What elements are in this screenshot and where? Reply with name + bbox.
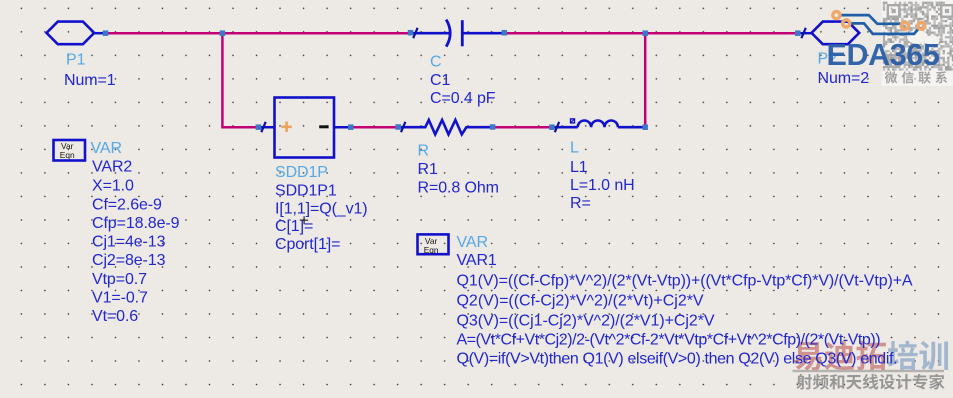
logo trace 2 <box>851 23 921 34</box>
P2 pin stub <box>798 32 812 35</box>
P1 pin stub <box>94 32 105 35</box>
SDD1P U1 box <box>258 98 367 254</box>
QR finder bottom-left <box>888 55 900 66</box>
svg-text:X=1.0: X=1.0 <box>92 177 134 194</box>
watermark yiditu bottom right <box>793 341 949 390</box>
svg-text:R=: R= <box>570 195 591 212</box>
junction at C1 pin 2 <box>502 30 508 36</box>
svg-text:Cfp=18.8e-9: Cfp=18.8e-9 <box>92 215 180 232</box>
svg-text:L: L <box>570 139 579 156</box>
L1 coil loops <box>578 120 618 127</box>
R1 pin-1 connect tick <box>401 122 405 132</box>
SDD1P1 pin-1 connect tick <box>261 122 265 132</box>
R1 zigzag symbol <box>398 120 492 134</box>
svg-text:L=1.0 nH: L=1.0 nH <box>570 177 635 194</box>
svg-text:SDD1P: SDD1P <box>275 164 328 181</box>
wire T-junction to capacitor <box>222 32 410 35</box>
junction at P2 pin <box>795 30 801 36</box>
svg-text:Cf=2.6e-9: Cf=2.6e-9 <box>92 196 162 213</box>
svg-text:Vt=0.6: Vt=0.6 <box>92 308 138 325</box>
svg-text:Q1(V)=((Cf-Cfp)*V^2)/(2*(Vt-Vt: Q1(V)=((Cf-Cfp)*V^2)/(2*(Vt-Vtp))+((Vt*C… <box>457 273 913 290</box>
svg-text:R1: R1 <box>418 161 438 178</box>
svg-text:I[1,1]=Q(_v1): I[1,1]=Q(_v1) <box>275 200 368 217</box>
junction at L1 pin 2 <box>642 124 648 130</box>
svg-text:R=0.8 Ohm: R=0.8 Ohm <box>418 180 499 197</box>
VAR2 VarEqn icon box <box>54 140 86 161</box>
svg-text:VAR: VAR <box>457 234 488 251</box>
svg-text:C1: C1 <box>430 72 450 89</box>
wire vertical drop to SDD1P input <box>222 33 258 127</box>
P2 hexagon symbol <box>812 22 860 45</box>
junction at C1 pin 1 <box>408 30 414 36</box>
capacitor C1 <box>411 20 505 107</box>
svg-text:R: R <box>418 143 429 160</box>
svg-text:Cj1=4e-13: Cj1=4e-13 <box>92 233 166 250</box>
svg-text:Eqn: Eqn <box>60 150 75 160</box>
logo trace 1 <box>841 15 901 24</box>
wire junction to P2 <box>645 32 798 35</box>
VAR1 VarEqn icon box <box>418 234 449 254</box>
P2 pin connect tick <box>801 28 805 38</box>
C1 lead pin 1 <box>411 32 452 35</box>
junction at SDD1P pin 1 <box>256 124 262 130</box>
junction at R1 pin 1 <box>395 124 401 130</box>
svg-text:Q(V)=if(V>Vt)then Q1(V) elseif: Q(V)=if(V>Vt)then Q1(V) elseif(V>0) then… <box>457 350 898 367</box>
svg-text:L1: L1 <box>570 159 588 176</box>
svg-text:VAR1: VAR1 <box>457 252 497 269</box>
svg-text:Cport[1]=: Cport[1]= <box>275 236 340 253</box>
svg-text:Q3(V)=((Cj1-Cj2)*V^2)/(2*V1)+C: Q3(V)=((Cj1-Cj2)*V^2)/(2*V1)+Cj2*V <box>457 312 715 329</box>
svg-text:EDA365: EDA365 <box>827 38 940 72</box>
svg-text:V1=-0.7: V1=-0.7 <box>92 290 148 307</box>
C1 pin-1 connect tick <box>413 28 417 38</box>
QR backdrop <box>882 0 953 86</box>
junction at P1 pin <box>103 30 109 36</box>
SDD1P1 body box <box>275 98 335 158</box>
L1 lead pin 1 <box>552 126 578 129</box>
svg-text:Num=2: Num=2 <box>818 70 870 87</box>
wire SDD1P output to resistor <box>351 126 398 129</box>
svg-text:SDD1P1: SDD1P1 <box>275 182 337 199</box>
wire P1 to T-junction <box>106 32 223 35</box>
wire vertical inductor to top net <box>644 33 647 127</box>
stray cursor cross <box>300 216 308 224</box>
svg-text:Q2(V)=((Cf-Cj2)*V^2)/(2*Vt)+Cj: Q2(V)=((Cf-Cj2)*V^2)/(2*Vt)+Cj2*V <box>457 293 704 310</box>
svg-text:Cj2=8e-13: Cj2=8e-13 <box>92 252 166 269</box>
L1 lead pin 2 <box>618 126 645 129</box>
svg-text:VAR2: VAR2 <box>92 159 132 176</box>
wechat bubbles ghost <box>907 30 928 44</box>
L1 pin-1 connect tick <box>555 122 559 132</box>
SDD1P1 minus terminal <box>319 125 328 128</box>
C1 straight plate <box>461 20 464 46</box>
svg-text:Num=1: Num=1 <box>64 72 116 89</box>
C1 curved plate <box>446 20 450 47</box>
svg-text:A=(Vt*Cf+Vt*Cj2)/2-(Vt^2*Cf-2*: A=(Vt*Cf+Vt*Cj2)/2-(Vt^2*Cf-2*Vt*Vtp*Cf+… <box>457 332 881 349</box>
inductor L1 <box>552 119 645 212</box>
svg-text:VAR: VAR <box>91 140 122 157</box>
port P1 <box>47 22 116 89</box>
SDD1P1 output lead <box>334 126 351 129</box>
EDA365 watermark group <box>827 0 953 86</box>
L1 pin-1 marker square <box>571 119 575 123</box>
wire resistor to inductor <box>493 126 552 129</box>
wire capacitor to vertical junction <box>504 32 645 35</box>
svg-text:C=0.4 pF: C=0.4 pF <box>430 90 496 107</box>
SDD1P1 input lead <box>258 126 274 129</box>
svg-text:Eqn: Eqn <box>424 245 439 255</box>
svg-text:P1: P1 <box>66 52 86 69</box>
junction at SDD1P output <box>348 124 354 130</box>
port P2 <box>798 22 869 87</box>
QR finder top-right <box>941 5 953 17</box>
logo via donuts <box>833 12 925 30</box>
VAR eqn block VAR1 <box>418 234 913 367</box>
weixin lianxi <box>885 71 898 83</box>
C1 lead pin 2 <box>462 32 504 35</box>
svg-text:Vtp=0.7: Vtp=0.7 <box>92 271 147 288</box>
SDD1P1 plus terminal <box>281 122 291 132</box>
svg-text:C: C <box>430 54 441 71</box>
resistor R1 <box>398 120 499 197</box>
junction at R1 pin 2 <box>490 124 496 130</box>
node T-junction L1 branch <box>642 30 648 36</box>
junction at L1 pin 1 <box>549 124 555 130</box>
node T-junction top net <box>220 30 226 36</box>
VAR eqn block VAR2 <box>54 140 180 325</box>
QR finder top-left <box>888 5 900 17</box>
P1 hexagon symbol <box>47 22 95 45</box>
